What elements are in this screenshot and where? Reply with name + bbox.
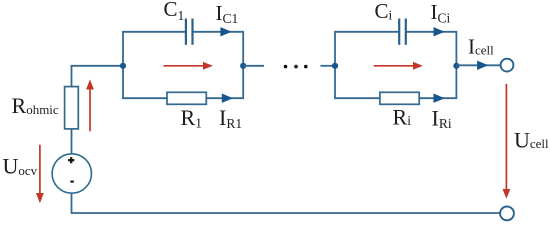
node: loop1 left (120, 63, 126, 69)
wire: middle rail from left branch to loop1 (72, 66, 124, 87)
arrowhead I_C1 (220, 27, 231, 36)
terminal: bottom output circle (500, 207, 514, 221)
arrowhead I_Ci (434, 27, 445, 36)
wire: loop2 top-right segment (407, 31, 457, 33)
wire: loop1 right vertical (242, 32, 244, 98)
wire: loop1 top-left segment (122, 31, 185, 33)
terminal: top output circle (501, 59, 514, 72)
wire: loop2 left vertical (334, 32, 336, 98)
arrowhead I_cell (477, 61, 488, 70)
voltage arrow across R_ohmic (red, up) (89, 89, 91, 132)
current arrow loop2 (red) (374, 65, 414, 67)
wire: loop2 right vertical (455, 32, 457, 98)
voltage arrow U_cell (red) (505, 84, 507, 190)
current arrow loop1 (red) (164, 65, 205, 67)
wire: source to bottom rail and bottom rail to output terminal (72, 193, 501, 213)
wire: loop1 left vertical (122, 32, 124, 98)
wire: loop2 top-left segment (334, 31, 398, 33)
resistor R1 (167, 92, 206, 104)
wire: loop2 bottom-left segment (334, 97, 380, 99)
wire: stub right of loop1 (243, 65, 264, 67)
node: loop2 left (332, 63, 338, 69)
wire: output lead (456, 64, 500, 66)
node: loop1 right (240, 63, 246, 69)
node: loop2 right (453, 63, 459, 69)
wire: stub left of loop2 (320, 65, 335, 67)
wire: loop2 bottom-right segment (419, 97, 457, 99)
capacitor C1 (185, 19, 187, 45)
resistor Ri (380, 92, 419, 104)
voltage source U_ocv (52, 154, 91, 193)
wire: loop1 bottom-right segment (206, 97, 244, 99)
arrowhead I_Ri (434, 94, 445, 103)
wire: loop1 top-right segment (194, 31, 245, 33)
wire: loop1 bottom-left segment (122, 97, 167, 99)
voltage arrow U_ocv (red, down) (39, 145, 41, 194)
ellipsis dots (284, 65, 288, 69)
resistor R_ohmic (65, 87, 79, 129)
arrowhead I_R1 (222, 94, 233, 103)
capacitor Ci (398, 19, 400, 45)
wire: R_ohmic to source (71, 129, 73, 154)
